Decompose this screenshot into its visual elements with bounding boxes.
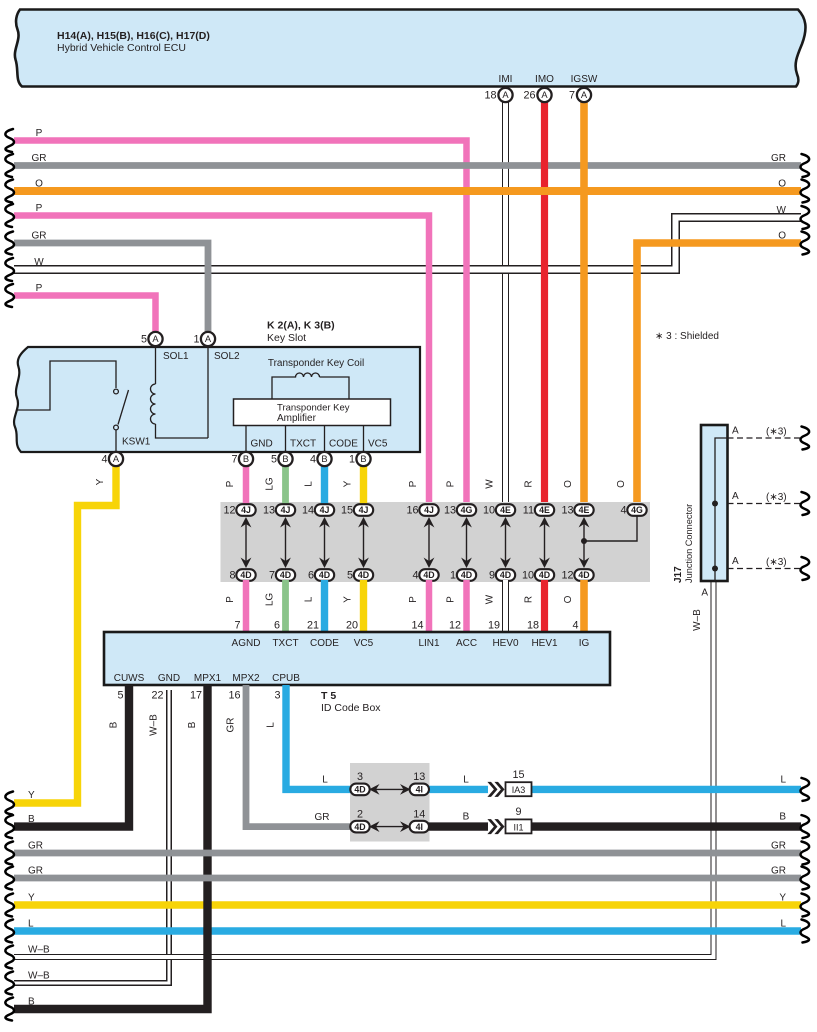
svg-text:7: 7	[569, 90, 575, 102]
svg-text:L: L	[322, 775, 328, 786]
svg-text:10: 10	[522, 570, 534, 582]
Key Slot block K2(A) K3(B)	[14, 347, 420, 452]
T5 top pin label HEV0	[492, 638, 519, 649]
node label L before band2	[322, 775, 328, 786]
wire color label R below band at x544.5	[524, 596, 535, 603]
wire color label GR below T5 at x246	[226, 718, 237, 733]
svg-text:4D: 4D	[500, 570, 511, 580]
svg-text:L: L	[304, 596, 315, 602]
svg-text:10: 10	[483, 505, 495, 517]
connector pin 5 A (SOL1)	[141, 332, 163, 346]
wire color label B below T5 at x129	[109, 721, 120, 728]
Key Slot header	[267, 320, 335, 345]
svg-text:4D: 4D	[358, 570, 369, 580]
node label L after band2	[463, 775, 469, 786]
svg-text:W: W	[34, 257, 44, 268]
svg-text:L: L	[780, 919, 786, 930]
svg-text:B: B	[463, 812, 470, 823]
svg-text:A: A	[502, 90, 509, 100]
svg-text:4I: 4I	[416, 785, 423, 795]
node label O row3 right	[778, 179, 786, 190]
svg-text:W–B: W–B	[692, 609, 703, 631]
wire row7 P left break turning down to SOL1 pin 5A	[5, 284, 155, 339]
pin number 4 above T5	[572, 620, 578, 632]
svg-text:21: 21	[307, 620, 319, 632]
svg-text:B: B	[779, 812, 786, 823]
svg-text:5: 5	[117, 690, 123, 702]
transponder key amplifier U-box	[234, 399, 391, 426]
label TXCT	[290, 439, 316, 450]
wire O from 4D to T5 pin 4	[580, 580, 588, 633]
node label GR before band2	[315, 812, 330, 823]
svg-text:O: O	[778, 179, 786, 190]
4G-4 jog wire to 13-4E/12-4D line with junction dot	[581, 512, 637, 544]
svg-text:22: 22	[151, 690, 163, 702]
node label GR row4 right	[771, 866, 786, 877]
connector 10 (4D) bottom row	[522, 569, 554, 581]
svg-text:6: 6	[274, 620, 280, 632]
svg-text:T 5: T 5	[321, 690, 336, 702]
svg-text:A: A	[113, 454, 120, 464]
svg-text:HEV1: HEV1	[531, 638, 558, 649]
svg-text:B: B	[187, 721, 198, 728]
wire color label P above junction band at x246	[225, 480, 236, 487]
junction band (4J/4G/4E to 4D)	[221, 502, 651, 582]
svg-text:ID Code Box: ID Code Box	[321, 702, 381, 714]
svg-text:4D: 4D	[319, 570, 330, 580]
svg-text:Y: Y	[28, 790, 35, 801]
double arrow 4E10 to 4D at x505.5	[500, 517, 511, 568]
note *3 Shielded	[655, 331, 719, 342]
svg-text:Transponder Key Coil: Transponder Key Coil	[268, 358, 364, 369]
node label L row left	[28, 919, 34, 930]
double arrow 4G13 to 4D at x466.5	[461, 517, 472, 568]
wire color label P below band at x466.5	[446, 596, 457, 603]
svg-text:7: 7	[269, 570, 275, 582]
arrow between 2-4D and 14-4I	[369, 821, 411, 832]
svg-text:4: 4	[620, 505, 626, 517]
svg-text:CODE: CODE	[310, 638, 339, 649]
node label Y row left	[28, 893, 35, 904]
svg-text:B: B	[243, 454, 249, 464]
node label B right row2	[779, 812, 786, 823]
connector 5 (4D) bottom row	[347, 569, 373, 581]
connector pin 1 B (VC5)	[349, 452, 371, 466]
wire W from 4D to T5 pin 19	[502, 580, 509, 633]
svg-text:(∗3): (∗3)	[766, 492, 787, 503]
connector 7 (4D) bottom row	[269, 569, 295, 581]
node label L right row1	[780, 775, 786, 786]
J17 pin A dashed lead 3	[728, 557, 810, 580]
connector 14 (4I)	[410, 809, 429, 833]
connector 14 (4J) top row	[302, 504, 334, 516]
wire color label O below band at x584	[563, 595, 574, 603]
svg-text:13: 13	[413, 771, 425, 783]
node label O row3 left	[35, 179, 43, 190]
pin number 16 below T5	[228, 690, 240, 702]
J17 pin label A 2	[732, 491, 739, 502]
svg-text:4G: 4G	[461, 505, 473, 515]
switch KSW1 contacts and blade	[114, 389, 129, 430]
svg-text:11: 11	[523, 505, 534, 517]
T5 header	[321, 690, 381, 714]
wire row3 O full width	[5, 180, 809, 203]
svg-text:4D: 4D	[280, 570, 291, 580]
node label W-B row2 left	[28, 971, 50, 982]
J17 rotated name	[673, 504, 694, 583]
wire color label O above junction band at x637	[616, 480, 627, 488]
svg-text:4E: 4E	[539, 505, 550, 515]
svg-text:Y: Y	[779, 893, 786, 904]
T5 bottom pin label GND	[158, 673, 180, 684]
wire Y VC5-1B to 15-4J	[360, 459, 367, 505]
ECU pin label IMO	[535, 74, 554, 85]
double arrow 4E11 to 4D at x544.5	[539, 517, 550, 568]
svg-text:4E: 4E	[579, 505, 590, 515]
connector pin 18 A (IMI)	[484, 88, 512, 102]
svg-text:B: B	[321, 454, 327, 464]
svg-text:B: B	[28, 814, 35, 825]
svg-text:A: A	[732, 556, 739, 567]
T5 top pin label IG	[579, 638, 590, 649]
wire color label W above junction band at x505.5	[485, 479, 496, 489]
svg-text:P: P	[36, 283, 43, 294]
J17 bottom pin label A	[701, 588, 708, 599]
svg-text:A: A	[732, 426, 739, 437]
wire R from 4D to T5 pin 18	[541, 580, 548, 633]
wire Y bottom row full width	[5, 894, 809, 917]
ECU pin label IGSW	[571, 74, 598, 85]
svg-text:16: 16	[228, 690, 240, 702]
node label Y bottom row	[28, 790, 35, 801]
svg-text:L: L	[28, 919, 34, 930]
svg-text:3: 3	[357, 771, 363, 783]
svg-text:15: 15	[512, 769, 524, 781]
wire P from 4D to T5 pin 14	[426, 580, 433, 633]
pin number 3 below T5	[274, 690, 280, 702]
svg-text:13: 13	[561, 505, 573, 517]
node label Y row right	[779, 893, 786, 904]
svg-text:IMI: IMI	[499, 74, 513, 85]
wire row6 W left break to up-turn to right break	[5, 206, 809, 281]
label GND	[251, 439, 273, 450]
svg-text:A: A	[205, 334, 212, 344]
node label W row6 left	[34, 257, 44, 268]
chevron splice to IA3	[487, 782, 504, 797]
svg-text:4: 4	[412, 570, 418, 582]
connector 1 (4D) bottom row	[450, 569, 476, 581]
pin number 20 above T5	[346, 620, 358, 632]
node label GR row5	[32, 231, 47, 242]
svg-text:P: P	[36, 128, 43, 139]
double arrow 4J16 to 4D at x429	[424, 517, 435, 568]
wire row2 GR full width	[5, 154, 809, 177]
connector 13 (4G) top row	[444, 504, 476, 516]
svg-text:5: 5	[141, 334, 147, 346]
J17 pin A dashed lead 2	[728, 492, 810, 515]
J17 shielded note (1)	[766, 427, 787, 438]
connector 4 (4G) top row	[620, 504, 646, 516]
svg-text:GR: GR	[28, 841, 43, 852]
wire IMI white vertical (W) pin 18A to 10-4E	[502, 95, 509, 505]
svg-text:A: A	[152, 334, 159, 344]
svg-text:SOL2: SOL2	[214, 351, 240, 362]
connector pin 1 A (SOL2)	[193, 332, 215, 346]
svg-text:4I: 4I	[416, 822, 423, 832]
wire color label LG above junction band at x285.5	[265, 477, 276, 491]
junction band (4D to 4I)	[350, 763, 430, 842]
T5 top pin label TXCT	[272, 638, 298, 649]
connector pin 4 B (CODE)	[310, 452, 332, 466]
wire Y from KSW1 pin 4A down-left-down to bottom Y row	[5, 459, 116, 815]
svg-text:17: 17	[190, 690, 202, 702]
svg-text:A: A	[701, 588, 708, 599]
T5 top pin label AGND	[232, 638, 261, 649]
wire B from CUWS pin 5 down and left to break	[5, 685, 129, 838]
svg-text:4J: 4J	[281, 505, 291, 515]
svg-text:12: 12	[449, 620, 461, 632]
svg-text:Y: Y	[28, 893, 35, 904]
svg-text:CODE: CODE	[329, 439, 358, 450]
wire row1 P left break turning down at x466 to 13-4G	[5, 129, 466, 505]
svg-text:LG: LG	[265, 593, 276, 607]
svg-text:4J: 4J	[241, 505, 251, 515]
svg-text:VC5: VC5	[354, 638, 374, 649]
svg-text:II1: II1	[513, 822, 523, 832]
J17 shielded note (2)	[766, 492, 787, 503]
wire color label P above junction band at x429	[408, 480, 419, 487]
svg-text:(∗3): (∗3)	[766, 427, 787, 438]
svg-text:4J: 4J	[320, 505, 330, 515]
svg-text:Y: Y	[343, 480, 354, 487]
amplifier output leads GND TXCT CODE VC5	[246, 426, 364, 453]
svg-text:4J: 4J	[359, 505, 369, 515]
svg-text:MPX1: MPX1	[194, 673, 222, 684]
connector 2 (4D)	[350, 809, 369, 833]
node label GR row3 right	[771, 841, 786, 852]
connector 11 (4E) top row	[523, 504, 554, 516]
connector pin 7 B (GND)	[231, 452, 253, 466]
node label W right	[777, 205, 787, 216]
double arrow 4J12 to 4D at x246	[241, 517, 252, 568]
svg-text:4J: 4J	[424, 505, 434, 515]
wire color label B below T5 at x207.5	[187, 721, 198, 728]
svg-text:14: 14	[411, 620, 423, 632]
svg-text:A: A	[541, 90, 548, 100]
svg-text:KSW1: KSW1	[122, 437, 151, 448]
svg-text:HEV0: HEV0	[492, 638, 519, 649]
switch KSW1 lower lead	[115, 430, 117, 452]
svg-text:LIN1: LIN1	[418, 638, 440, 649]
svg-text:MPX2: MPX2	[232, 673, 260, 684]
wire GR row (lower) full width	[5, 867, 809, 890]
svg-text:Junction Connector: Junction Connector	[684, 504, 694, 583]
svg-text:GR: GR	[771, 841, 786, 852]
wire color label LG below band at x285.5	[265, 593, 276, 607]
svg-text:6: 6	[308, 570, 314, 582]
svg-text:1: 1	[349, 454, 355, 466]
J17 shielded note (3)	[766, 557, 787, 568]
node label B bottom row2	[28, 814, 35, 825]
svg-text:W–B: W–B	[149, 714, 160, 736]
svg-text:18: 18	[484, 90, 496, 102]
wire W-B from J17 down to row and left to break	[5, 578, 713, 969]
connector 13 (4I)	[410, 771, 429, 795]
connector 12 (4J) top row	[223, 504, 255, 516]
wire L from 4D to T5 pin 21	[321, 580, 328, 633]
svg-text:GR: GR	[32, 153, 47, 164]
svg-text:A: A	[732, 491, 739, 502]
wire row5 GR left break turning down to SOL2 pin 1A	[5, 232, 208, 340]
double arrow 4J14 to 4D at x324.5	[319, 517, 330, 568]
svg-text:P: P	[36, 203, 43, 214]
svg-text:26: 26	[523, 90, 535, 102]
svg-text:(∗3): (∗3)	[766, 557, 787, 568]
svg-text:4: 4	[572, 620, 578, 632]
node label B after band2	[463, 812, 470, 823]
solenoid SOL1 lead and coil	[151, 346, 209, 438]
connector 10 (4E) top row	[483, 504, 515, 516]
svg-text:GR: GR	[226, 718, 237, 733]
double arrow 4J15 to 4D at x363.5	[358, 517, 369, 568]
svg-text:Y: Y	[95, 478, 106, 485]
wire LG TXCT-5B to 13-4J	[282, 459, 289, 505]
wire P from 4D to T5 pin 12	[463, 580, 470, 633]
svg-text:VC5: VC5	[368, 439, 388, 450]
svg-text:IA3: IA3	[512, 785, 526, 795]
wire color label P below band at x246	[225, 596, 236, 603]
svg-text:GR: GR	[315, 812, 330, 823]
svg-text:GND: GND	[158, 673, 180, 684]
svg-text:4G: 4G	[631, 505, 643, 515]
svg-text:4D: 4D	[240, 570, 251, 580]
connector 16 (4J) top row	[406, 504, 438, 516]
svg-text:7: 7	[231, 454, 237, 466]
node label GR row3 left	[28, 841, 43, 852]
svg-text:12: 12	[561, 570, 573, 582]
node label B bottom row last	[28, 997, 35, 1008]
Hybrid Vehicle Control ECU H14/H15/H16/H17 block	[15, 10, 806, 87]
connector 6 (4D) bottom row	[308, 569, 334, 581]
pin number 22 below T5	[151, 690, 163, 702]
label SOL2	[214, 351, 240, 362]
pin number 18 above T5	[527, 620, 539, 632]
svg-text:4: 4	[310, 454, 316, 466]
double arrow 4J13 to 4D at x285.5	[280, 517, 291, 568]
J17 pin label A 1	[732, 426, 739, 437]
svg-text:19: 19	[488, 620, 500, 632]
wire IGSW orange vertical (O) pin 7A to 13-4E	[580, 95, 588, 505]
svg-text:GND: GND	[251, 439, 273, 450]
svg-text:K 2(A), K 3(B): K 2(A), K 3(B)	[267, 320, 335, 332]
wire color label W-B below J17	[692, 609, 703, 631]
svg-text:R: R	[524, 596, 535, 603]
splice IA3 pin 15	[506, 769, 532, 796]
T5 bottom pin label MPX2	[232, 673, 260, 684]
svg-text:SOL1: SOL1	[163, 351, 189, 362]
svg-text:L: L	[780, 775, 786, 786]
svg-text:P: P	[225, 480, 236, 487]
svg-text:AGND: AGND	[232, 638, 261, 649]
svg-text:L: L	[304, 481, 315, 487]
connector 12 (4D) bottom row	[561, 569, 593, 581]
svg-text:2: 2	[357, 809, 363, 821]
J17 pin A dashed lead 1	[728, 427, 810, 450]
wire right O row turning down at x637 to 4-4G	[637, 232, 809, 506]
svg-text:CUWS: CUWS	[114, 673, 145, 684]
wire P GND-7B to 12-4J	[243, 459, 250, 505]
svg-text:GR: GR	[771, 866, 786, 877]
svg-text:IMO: IMO	[535, 74, 554, 85]
svg-text:18: 18	[527, 620, 539, 632]
wire L bottom row full width	[5, 920, 809, 943]
connector pin 4 A (KSW1)	[101, 452, 123, 466]
svg-text:LG: LG	[265, 477, 276, 491]
label VC5	[368, 439, 388, 450]
svg-text:P: P	[408, 596, 419, 603]
wire color label L above junction band at x324.5	[304, 481, 315, 487]
svg-text:W: W	[485, 479, 496, 489]
wire W-B from T5 GND pin 22 down and left to break	[5, 690, 169, 995]
node label Y (KSW1 wire)	[95, 478, 106, 485]
svg-text:Key Slot: Key Slot	[267, 332, 306, 344]
node label O right row	[778, 231, 786, 242]
connector 15 (4J) top row	[341, 504, 373, 516]
transponder key coil symbol and frame	[272, 373, 349, 399]
chevron splice to II1	[487, 819, 504, 834]
node label P row4	[36, 203, 43, 214]
svg-text:4: 4	[101, 454, 107, 466]
node label P row1	[36, 128, 43, 139]
wire L from 13-4I to IA3 and right break	[428, 778, 809, 801]
svg-text:B: B	[109, 721, 120, 728]
wire GR row (mid) full width	[5, 842, 809, 865]
svg-text:CPUB: CPUB	[272, 673, 300, 684]
wire P from 4D to T5 pin 7	[243, 580, 250, 633]
svg-text:L: L	[463, 775, 469, 786]
pin number 14 above T5	[411, 620, 423, 632]
svg-text:Amplifier: Amplifier	[277, 413, 317, 424]
label Transponder Key Coil	[268, 358, 364, 369]
svg-text:TXCT: TXCT	[290, 439, 316, 450]
svg-text:W: W	[777, 205, 787, 216]
svg-text:W: W	[485, 594, 496, 604]
connector 3 (4D)	[350, 771, 369, 795]
wire color label W–B below T5 at x169	[149, 714, 160, 736]
wire GR from MPX2 pin 16 to 2-4D	[246, 685, 352, 827]
node label GR row2 left	[32, 153, 47, 164]
svg-text:4D: 4D	[578, 570, 589, 580]
wire color label O above junction band at x584	[563, 480, 574, 488]
svg-text:8: 8	[229, 570, 235, 582]
T5 ID Code Box block	[104, 632, 610, 685]
T5 top pin label LIN1	[418, 638, 440, 649]
switch KSW1 wiring from torn edge	[17, 361, 116, 410]
wire IMO red vertical (R) pin 26A to 11-4E	[541, 95, 548, 505]
svg-text:J17: J17	[673, 566, 684, 583]
wire L CODE-4B to 14-4J	[321, 459, 328, 505]
svg-text:∗ 3 : Shielded: ∗ 3 : Shielded	[655, 331, 719, 342]
svg-text:7: 7	[234, 620, 240, 632]
T5 top pin label ACC	[456, 638, 477, 649]
splice II1 pin 9	[506, 806, 532, 833]
svg-text:5: 5	[347, 570, 353, 582]
label SOL1	[163, 351, 189, 362]
connector 13 (4E) top row	[561, 504, 593, 516]
T5 bottom pin label CPUB	[272, 673, 300, 684]
label KSW1	[122, 437, 151, 448]
svg-text:P: P	[225, 596, 236, 603]
